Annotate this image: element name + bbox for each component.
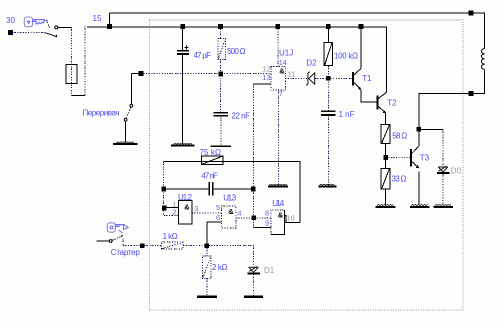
- svg-text:58 Ω: 58 Ω: [392, 131, 407, 140]
- svg-text:13: 13: [262, 73, 270, 82]
- node 47nF right junction: [251, 187, 256, 192]
- svg-text:3: 3: [194, 204, 198, 213]
- node 47nF left junction: [161, 187, 166, 192]
- wire 100k top: [327, 27, 329, 43]
- capacitor 47uF plus sign: [185, 45, 189, 49]
- ignition coil winding: [482, 49, 485, 70]
- wire ballast bottom jog: [71, 94, 85, 96]
- transistor T1: [353, 69, 361, 90]
- node D0 branch junction: [417, 127, 422, 132]
- ignition key icon: [24, 17, 45, 27]
- ground divider: [376, 205, 396, 208]
- node 47uF top junction: [180, 24, 185, 29]
- node U12 input junction: [162, 206, 167, 211]
- wire U12 pin1: [164, 207, 178, 209]
- wire 33ohm to ground: [385, 189, 387, 205]
- svg-text:47 nF: 47 nF: [201, 171, 218, 180]
- module boundary dashed gray box: [150, 20, 463, 310]
- ground 47uF: [171, 143, 194, 146]
- resistor 58ohm body: [381, 125, 390, 144]
- resistor 75k body: [201, 156, 223, 165]
- svg-text:4: 4: [237, 208, 241, 217]
- svg-text:Стартер: Стартер: [111, 248, 141, 257]
- wire 47uF bottom to ground: [182, 55, 184, 144]
- resistor 33ohm body: [381, 168, 390, 189]
- wire U14 output to feedback: [285, 221, 300, 223]
- wire T1 emitter to T2 base: [361, 89, 378, 102]
- wire U13 pin6 L: [207, 222, 222, 246]
- svg-text:2: 2: [172, 208, 176, 217]
- diode D0 zener: [438, 166, 448, 172]
- ground breaker: [113, 142, 137, 145]
- svg-text:D1: D1: [264, 266, 275, 275]
- svg-text:10: 10: [286, 214, 294, 223]
- svg-text:47 µF: 47 µF: [194, 51, 212, 60]
- svg-text:22 nF: 22 nF: [232, 112, 251, 121]
- svg-text:15: 15: [93, 14, 102, 23]
- dashed wires blue layer: [13, 20, 444, 296]
- svg-text:&: &: [228, 207, 234, 216]
- terminal 30 square: [8, 30, 13, 35]
- node 15 junction: [107, 24, 112, 29]
- wire breaker bottom to ground: [125, 122, 127, 143]
- ground T3 emitter: [410, 205, 430, 208]
- starter switch contact: [109, 235, 122, 242]
- transistor T3: [411, 146, 419, 168]
- ground pin7: [268, 184, 288, 187]
- svg-text:1 nF: 1 nF: [339, 110, 355, 119]
- IC U14 output notch: [285, 216, 287, 223]
- wire U14 pin9 L: [254, 226, 272, 228]
- node breaker junction: [139, 71, 144, 76]
- svg-text:33 Ω: 33 Ω: [392, 175, 407, 184]
- wire coil bottom to T3 collector: [419, 69, 485, 146]
- wire breaker top: [131, 74, 141, 105]
- svg-text:T1: T1: [362, 74, 372, 83]
- svg-text:U1.4: U1.4: [272, 199, 285, 208]
- node 500ohm top junction: [218, 24, 223, 29]
- wire 58ohm to 33ohm divider: [385, 144, 387, 169]
- wire 15 rail: [87, 27, 387, 93]
- ground D1: [244, 296, 263, 298]
- node starter junction: [140, 243, 145, 248]
- capacitor 47uF plates: [177, 50, 189, 55]
- svg-text:7: 7: [279, 89, 283, 98]
- node D2 output junction: [326, 76, 331, 81]
- IC U14 body right/bottom solid: [271, 210, 285, 235]
- wire 47uF branch: [182, 27, 184, 51]
- node U14 input junction: [252, 216, 257, 221]
- transistor T2: [378, 92, 387, 113]
- ground D0: [434, 205, 454, 208]
- svg-text:6: 6: [216, 213, 220, 222]
- wire T3 emitter to ground: [418, 172, 420, 206]
- wire switch upper contact to ballast: [58, 27, 72, 29]
- IC U12 body solid: [178, 200, 192, 223]
- capacitor 47nF plates: [208, 182, 213, 196]
- svg-text:D2: D2: [306, 59, 317, 68]
- ignition switch contacts: [45, 26, 58, 37]
- breaker contacts: [124, 104, 133, 121]
- wire T2 emitter down to 58ohm: [385, 113, 387, 125]
- wire top supply line to coil: [110, 13, 485, 49]
- svg-text:30: 30: [6, 16, 15, 25]
- node divider junction: [383, 155, 388, 160]
- diode D2: [306, 72, 315, 86]
- svg-text:500 Ω: 500 Ω: [227, 47, 246, 56]
- svg-text:&: &: [279, 67, 285, 76]
- svg-text:T3: T3: [420, 154, 430, 163]
- node coil bottom junction: [469, 91, 474, 96]
- svg-text:2 kΩ: 2 kΩ: [212, 263, 228, 272]
- ground 1nF: [318, 184, 336, 187]
- ground 22nF: [211, 145, 231, 147]
- dashed wires black layer: [13, 20, 444, 296]
- diode D1: [249, 267, 259, 273]
- node coil top junction: [469, 11, 474, 16]
- svg-text:D0: D0: [451, 166, 462, 175]
- capacitor 22nF plates: [214, 112, 228, 117]
- node pin14 junction: [276, 24, 281, 29]
- svg-text:Переривач: Переривач: [83, 109, 120, 118]
- wire 47nF right: [213, 188, 253, 190]
- resistor 100k body: [324, 42, 332, 65]
- capacitor 1nF plates: [321, 111, 336, 116]
- svg-text:75 kΩ: 75 kΩ: [200, 148, 222, 157]
- node 2k junction: [205, 243, 210, 248]
- svg-text:9: 9: [265, 218, 269, 227]
- svg-text:5: 5: [216, 203, 220, 212]
- wire 47nF left: [164, 188, 209, 190]
- resistor ballast body: [66, 64, 77, 83]
- svg-text:100 kΩ: 100 kΩ: [334, 52, 358, 61]
- ground 2k: [197, 296, 217, 299]
- svg-text:&: &: [184, 202, 190, 211]
- starter key icon: [107, 223, 128, 233]
- node T1 collector junction: [359, 24, 364, 29]
- node 100k top junction: [326, 24, 331, 29]
- svg-text:&: &: [278, 211, 284, 220]
- svg-text:U1.3: U1.3: [223, 193, 237, 202]
- svg-text:1 kΩ: 1 kΩ: [163, 232, 178, 241]
- module boundary top edge light: [150, 19, 463, 21]
- wire starter switch lead: [97, 240, 109, 242]
- wire U1 pin13 horizontal: [254, 83, 272, 85]
- svg-text:T2: T2: [387, 99, 397, 108]
- wire D0 branch horizontal: [419, 129, 443, 131]
- wire T1 collector up: [360, 27, 362, 69]
- svg-text:U1J: U1J: [279, 49, 293, 58]
- svg-text:14: 14: [279, 58, 287, 67]
- wire feedback 75k line: [164, 161, 300, 222]
- node 500ohm bottom junction: [218, 72, 223, 77]
- svg-text:8: 8: [265, 209, 269, 218]
- wire 15 node up to top line: [109, 13, 111, 27]
- svg-text:11: 11: [288, 69, 296, 78]
- junction node squares: [8, 11, 473, 248]
